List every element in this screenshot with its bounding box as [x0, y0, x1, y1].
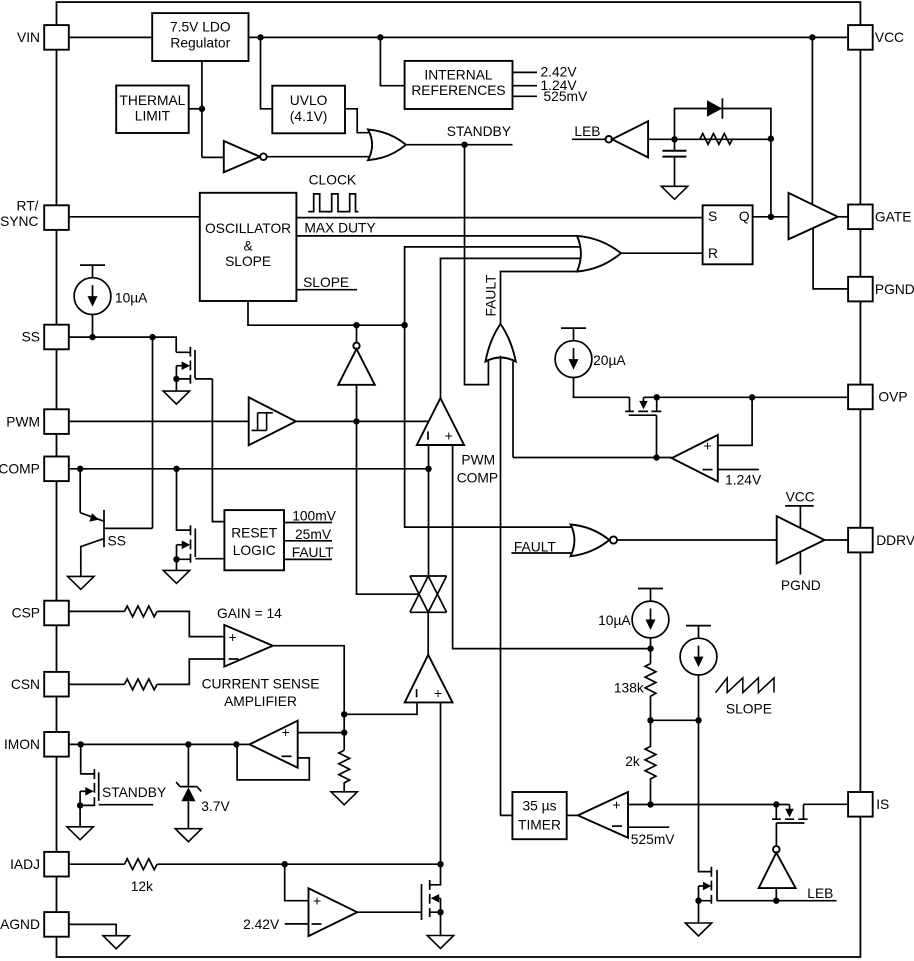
wire CS node to error amp inverting input	[344, 702, 417, 714]
wire ovp comparator into or-gate	[512, 362, 514, 458]
wire VIN to LDO	[69, 36, 152, 38]
block 7.5V LDO Regulator	[152, 13, 248, 61]
wire or-gate output to latch R	[621, 252, 703, 254]
svg-text:STANDBY: STANDBY	[447, 124, 511, 139]
node junction CS out / buffer	[341, 729, 347, 735]
ground under M5	[427, 936, 453, 949]
label PGND below driver	[781, 552, 821, 593]
ground under BJT	[68, 576, 94, 589]
svg-text:1.24V: 1.24V	[725, 473, 762, 488]
node junction M5 source	[437, 909, 443, 915]
wire driver output to DDRV pin	[825, 539, 849, 541]
or-gate U2 standby	[368, 129, 406, 160]
svg-text:10µA: 10µA	[598, 613, 631, 628]
node junction M2 source	[173, 556, 179, 562]
wire M1 source to ground	[175, 379, 177, 391]
stub FAULT into nor-gate	[511, 539, 575, 554]
wire oscillator bottom rail	[248, 301, 405, 325]
wire IMON pin rail	[69, 743, 237, 745]
wire 138k node to slope source	[651, 719, 699, 721]
node junction SS/current source	[89, 334, 95, 340]
node junction slope source	[695, 717, 701, 723]
svg-text:+: +	[229, 630, 237, 645]
wire schmitt output to pwm comp	[296, 420, 429, 422]
ground under M7	[685, 923, 711, 936]
svg-text:COMP: COMP	[457, 470, 498, 485]
wire inverter to OR gate	[267, 156, 373, 158]
node junction SS/BJT collector	[149, 334, 155, 340]
wire OVP to comparator + input	[718, 397, 752, 445]
svg-text:PWM: PWM	[461, 452, 495, 467]
wire RT/SYNC to oscillator	[69, 216, 200, 218]
svg-text:525mV: 525mV	[631, 832, 676, 847]
svg-text:RESET: RESET	[231, 525, 278, 540]
svg-text:SS: SS	[108, 534, 126, 549]
svg-text:REFERENCES: REFERENCES	[411, 83, 505, 98]
svg-text:525mV: 525mV	[544, 89, 589, 104]
svg-text:GATE: GATE	[875, 210, 912, 225]
node junction COMP/multiplier	[425, 466, 431, 472]
wire comparator output to fault or-gate	[513, 457, 672, 459]
wire timer fault into or-gate	[501, 356, 513, 816]
ground under M1	[163, 391, 189, 404]
zener diode D2 3.7V	[176, 744, 230, 828]
node junction on VCC rail at x=380.4	[377, 34, 383, 40]
svg-text:LIMIT: LIMIT	[135, 109, 171, 124]
comparator U10 PWM COMP	[417, 398, 464, 445]
wire multiplier input from schmitt node	[357, 421, 420, 594]
stub 525mV reference	[628, 827, 675, 847]
block THERMAL LIMIT	[116, 86, 189, 134]
svg-text:VIN: VIN	[17, 30, 40, 45]
stub 100mV	[284, 509, 337, 524]
node junction COMP/M2	[173, 466, 179, 472]
ground AGND	[103, 936, 129, 949]
node junction M7 source	[695, 898, 701, 904]
node junction at inverter top	[353, 322, 359, 328]
wire amplifier output down	[273, 646, 344, 751]
wire LEB line	[717, 886, 837, 901]
block INTERNAL REFERENCES	[405, 61, 513, 109]
multiplier X1	[410, 576, 447, 612]
wire multiplier output to error amp	[427, 612, 429, 655]
svg-text:Q: Q	[739, 209, 750, 224]
wire fault net vertical	[501, 272, 579, 324]
svg-text:OVP: OVP	[878, 390, 907, 405]
wire AGND to ground	[69, 924, 116, 935]
node junction at x=404.6	[401, 322, 407, 328]
wire driver output to GATE pin	[838, 216, 848, 218]
svg-text:+: +	[434, 686, 442, 701]
op-amp U14 current sense amplifier	[224, 625, 272, 667]
current source I4 slope	[680, 626, 717, 721]
block UVLO (4.1V)	[272, 86, 345, 134]
node junction IMON/buffer output	[233, 741, 239, 747]
pin AGND	[0, 912, 69, 937]
wire LDO output to VCC pin	[249, 36, 849, 38]
stub 25mV	[284, 527, 332, 542]
transistor M3 (OVP, lateral)	[625, 397, 661, 457]
svg-text:SLOPE: SLOPE	[726, 701, 772, 716]
ground under M2	[163, 570, 189, 583]
wire nor-gate to DDRV driver	[617, 539, 777, 541]
node junction IS rail/M6	[773, 801, 779, 807]
current source I2 20uA	[555, 328, 629, 397]
svg-text:OSCILLATOR: OSCILLATOR	[205, 221, 291, 236]
pin PGND	[848, 277, 914, 302]
svg-text:CLOCK: CLOCK	[309, 173, 357, 188]
svg-text:Regulator: Regulator	[170, 35, 230, 50]
node junction IMON/zener	[185, 741, 191, 747]
wire VCC rail down to internal references	[380, 37, 404, 85]
svg-text:&: &	[243, 238, 252, 253]
svg-text:(4.1V): (4.1V)	[290, 109, 328, 124]
svg-text:VCC: VCC	[786, 490, 815, 505]
pin VIN	[17, 25, 69, 50]
ground under R4	[331, 792, 357, 805]
ground under capacitor	[661, 186, 687, 199]
svg-text:IMON: IMON	[4, 737, 40, 752]
svg-text:FAULT: FAULT	[514, 539, 556, 554]
resistor R7 2k	[625, 720, 656, 804]
resistor R3 (CSN)	[125, 679, 158, 690]
svg-text:R: R	[708, 246, 718, 261]
inverter U19 LEB (pointing up)	[759, 846, 796, 901]
svg-text:7.5V LDO: 7.5V LDO	[170, 20, 231, 35]
capacitor C1	[662, 139, 686, 187]
node junction 10uA/pwm comp	[647, 645, 653, 651]
comparator U11 OVP (pointing left)	[672, 435, 718, 482]
buffer U5 gate driver	[789, 193, 838, 239]
svg-text:3.7V: 3.7V	[201, 799, 230, 814]
svg-text:PWM: PWM	[6, 414, 40, 429]
wire CSN to amplifier	[69, 659, 225, 684]
wire diode branch	[675, 109, 771, 140]
node junction 138k/2k	[647, 717, 653, 723]
wire comparator + input to IS rail	[628, 804, 790, 806]
node junction LEB/inverter	[773, 898, 779, 904]
resistor R2 (CSP)	[125, 606, 158, 617]
svg-text:12k: 12k	[131, 879, 153, 894]
op-amp U16 IMON buffer (pointing left)	[236, 721, 297, 768]
wire clock output to latch S	[296, 217, 702, 219]
wire M2 source to ground	[176, 559, 178, 570]
svg-text:FAULT: FAULT	[292, 545, 334, 560]
buffer U13 DDRV driver	[777, 516, 825, 563]
node junction IADJ/comparator	[282, 861, 288, 867]
svg-text:AMPLIFIER: AMPLIFIER	[224, 694, 297, 709]
wire UVLO to OR gate	[345, 109, 373, 133]
wire max duty to or-gate input1	[296, 235, 578, 237]
node junction on VCC rail at x=812.4	[809, 34, 815, 40]
svg-text:CSN: CSN	[11, 677, 40, 692]
svg-text:10µA: 10µA	[115, 291, 148, 306]
inverter U1 (thermal)	[224, 141, 267, 172]
wire or-gate input2	[405, 247, 584, 325]
ground under zener	[175, 829, 201, 842]
svg-text:20µA: 20µA	[593, 353, 626, 368]
wire standby	[406, 144, 513, 146]
svg-text:+: +	[313, 894, 321, 909]
stub reference 2.42V	[513, 65, 578, 80]
wire M1 gate to reset logic	[212, 379, 224, 522]
svg-text:INTERNAL: INTERNAL	[424, 68, 493, 83]
nor-gate U12 (DDRV disable)	[571, 525, 618, 557]
stub reference 1.24V	[513, 78, 578, 93]
svg-text:FAULT: FAULT	[484, 274, 499, 316]
svg-text:100mV: 100mV	[292, 509, 337, 524]
svg-text:PGND: PGND	[781, 578, 821, 593]
node junction 2k/comparator	[647, 801, 653, 807]
pin VCC	[848, 25, 904, 50]
pin OVP	[848, 385, 907, 410]
ground under M4	[67, 827, 93, 840]
transistor M5 (IADJ clamp, mirrored)	[422, 864, 441, 920]
sawtooth slope glyph	[716, 678, 774, 693]
wire node to inverter input	[202, 156, 224, 158]
svg-text:DDRV: DDRV	[876, 533, 914, 548]
wire M4 source to ground	[79, 805, 81, 826]
wire IADJ pin rail	[69, 863, 441, 865]
svg-text:VCC: VCC	[875, 30, 904, 45]
wire M7 source to ground	[698, 901, 700, 923]
pin IS	[848, 792, 889, 817]
svg-text:LOGIC: LOGIC	[233, 543, 276, 558]
svg-text:SLOPE: SLOPE	[225, 254, 271, 269]
node junction M4 source	[77, 802, 83, 808]
transistor M2 (reset pulldown)	[177, 469, 225, 563]
svg-text:+: +	[704, 439, 712, 454]
wire node down to gate wire	[770, 139, 772, 217]
node junction M1 source	[173, 376, 179, 382]
transistor M6 (IS blanking, lateral)	[772, 804, 848, 846]
svg-text:CURRENT SENSE: CURRENT SENSE	[202, 676, 320, 691]
svg-text:+: +	[445, 428, 453, 443]
clock waveform glyph	[308, 194, 358, 212]
label VCC above driver	[785, 490, 815, 528]
svg-text:+: +	[282, 725, 290, 740]
comparator U18 timer (pointing left)	[567, 792, 628, 838]
node junction IMON/standby fet	[78, 741, 84, 747]
wire LDO bottom to thermal limit node	[201, 61, 203, 157]
stub 2.42V reference	[243, 917, 308, 932]
wire error amp + input to IADJ	[440, 702, 442, 864]
resistor R1 (LEB)	[700, 134, 733, 145]
wire inverter input to cap node	[648, 138, 771, 140]
pin COMP	[0, 457, 69, 482]
wire buffer feedback loop	[237, 744, 309, 780]
node junction on VCC rail at x=260.5	[257, 34, 263, 40]
wire M5 source to ground	[440, 912, 442, 935]
wire or-gate input3 from pwm comp	[441, 258, 585, 398]
wire COMP pin rail	[69, 468, 429, 470]
node junction OVP/comparator	[749, 394, 755, 400]
block RESET LOGIC	[224, 510, 284, 570]
resistor R6 138k	[614, 664, 656, 721]
svg-text:IADJ: IADJ	[10, 857, 40, 872]
node junction IADJ/error amp	[437, 861, 443, 867]
wire Q to gate driver	[753, 216, 789, 218]
node junction standby	[461, 142, 467, 148]
op-amp U15 error amplifier	[405, 655, 453, 703]
pin IADJ	[10, 852, 69, 877]
svg-text:MAX DUTY: MAX DUTY	[304, 221, 375, 236]
svg-text:2k: 2k	[625, 754, 640, 769]
svg-text:25mV: 25mV	[295, 527, 332, 542]
label CURRENT SENSE AMPLIFIER	[202, 676, 320, 709]
svg-text:UVLO: UVLO	[290, 93, 328, 108]
stub 1.24V reference	[718, 470, 762, 488]
svg-text:STANDBY: STANDBY	[102, 785, 166, 800]
wire OVP pin rail	[657, 396, 848, 398]
svg-text:RT/: RT/	[17, 199, 39, 214]
label PWM COMP	[457, 452, 498, 485]
inverter U7 (pointing up)	[338, 325, 375, 421]
transistor M1 (SS pulldown)	[176, 347, 212, 384]
transistor M4 (IMON standby)	[80, 744, 166, 806]
resistor R5 12k	[125, 859, 158, 894]
node junction COMP/BJT	[77, 466, 83, 472]
or-gate U9 fault (pointing up)	[486, 324, 516, 362]
node junction comparator output/M3 gate	[653, 454, 659, 460]
wire pwm comp + input to 10uA node	[453, 445, 651, 649]
comparator U17 2.42V	[309, 888, 358, 936]
svg-text:THERMAL: THERMAL	[119, 93, 185, 108]
block OSCILLATOR & SLOPE	[200, 193, 297, 301]
inverter U3 LEB (pointing left)	[606, 121, 649, 157]
wire VCC to driver top	[811, 37, 813, 204]
wire standby into fault or-gate	[465, 145, 489, 385]
svg-text:+: +	[613, 797, 621, 812]
svg-text:LEB: LEB	[574, 124, 600, 139]
wire nor-gate top input from x=404.6 net	[405, 325, 575, 527]
block 35us TIMER	[512, 792, 566, 839]
transistor Q1 BJT SS	[80, 337, 152, 576]
wire VCC rail down to UVLO	[261, 37, 273, 108]
pin PWM	[6, 409, 69, 434]
svg-text:TIMER: TIMER	[518, 817, 561, 832]
svg-text:LEB: LEB	[807, 886, 833, 901]
node junction resistor/diode	[768, 136, 774, 142]
node junction thermal limit	[199, 106, 205, 112]
svg-text:AGND: AGND	[0, 917, 40, 932]
wire driver bottom to PGND pin	[813, 229, 848, 289]
current source I3 10uA (slope offset)	[598, 589, 669, 664]
node junction CS out / error amp	[341, 711, 347, 717]
wire CSP to amplifier	[69, 611, 225, 636]
label SLOPE (oscillator output)	[296, 275, 357, 290]
svg-text:S: S	[708, 209, 717, 224]
latch U4 SR	[703, 205, 753, 264]
svg-text:138k: 138k	[614, 680, 644, 695]
pin DDRV	[848, 528, 914, 553]
svg-text:CSP: CSP	[12, 606, 40, 621]
pin CSN	[11, 672, 69, 697]
transistor M7 (LEB pulldown)	[699, 720, 718, 904]
wire pwm comp inverting input through comp node to multiplier	[428, 445, 430, 576]
pin IMON	[4, 732, 69, 757]
svg-text:SLOPE: SLOPE	[303, 275, 349, 290]
wire PWM pin to schmitt	[69, 420, 249, 422]
schmitt trigger U6	[249, 397, 296, 445]
stub FAULT (reset logic)	[284, 545, 334, 560]
node junction M3/OVP wire	[654, 394, 660, 400]
svg-text:GAIN = 14: GAIN = 14	[217, 606, 282, 621]
pin SS	[22, 325, 69, 350]
wire buffer + input	[298, 732, 345, 734]
svg-text:35 µs: 35 µs	[522, 799, 556, 814]
stub reference 525mV	[513, 89, 589, 104]
current source I1 10uA	[74, 265, 148, 337]
wire LEB label to inverter	[572, 124, 606, 139]
node junction LEB cap node	[671, 136, 677, 142]
wire IADJ to comparator + input	[285, 864, 309, 901]
svg-text:PGND: PGND	[875, 282, 914, 297]
svg-text:COMP: COMP	[0, 462, 40, 477]
node junction on Q wire	[768, 214, 774, 220]
svg-text:SYNC: SYNC	[0, 214, 38, 229]
pin GATE	[848, 205, 911, 230]
wire thermal limit to node	[189, 108, 202, 110]
diode D1	[707, 98, 722, 118]
svg-text:SS: SS	[22, 330, 40, 345]
resistor R4 (CS out)	[339, 750, 350, 792]
pin RT/SYNC	[0, 199, 69, 230]
svg-text:2.42V: 2.42V	[243, 917, 280, 932]
wire SS pin rail	[69, 337, 176, 352]
svg-text:IS: IS	[876, 797, 889, 812]
or-gate U8 (4-input, to latch R)	[577, 236, 621, 272]
pin CSP	[12, 601, 69, 626]
wire comparator output to M5 gate	[357, 911, 421, 913]
node junction schmitt output	[353, 418, 359, 424]
